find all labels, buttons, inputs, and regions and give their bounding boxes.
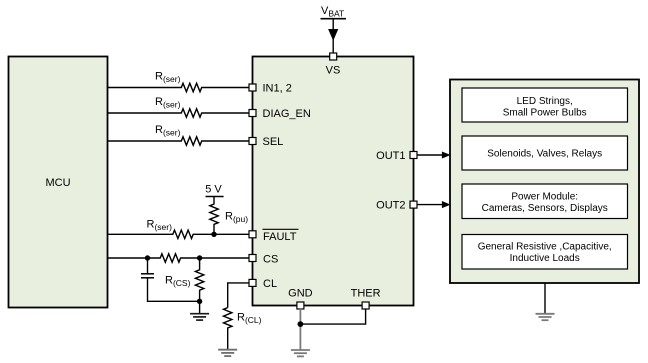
load box: LED strings: [462, 88, 628, 122]
resistor R(pu): [210, 197, 248, 235]
pin FAULT: [249, 229, 299, 243]
svg-text:R(CL): R(CL): [237, 312, 262, 326]
ground at GND pin: [291, 350, 310, 356]
ground at loads box: [536, 314, 555, 320]
pin IN1,2: [249, 83, 292, 95]
svg-text:DIAG_EN: DIAG_EN: [263, 108, 311, 120]
power switch IC block U1: [253, 57, 414, 306]
node GND junction: [298, 321, 304, 327]
wire loads box to ground: [544, 283, 546, 313]
svg-text:R(pu): R(pu): [225, 211, 248, 225]
svg-text:Cameras, Sensors, Displays: Cameras, Sensors, Displays: [482, 203, 608, 214]
wire THER to GND node: [300, 309, 365, 324]
svg-text:CL: CL: [263, 278, 277, 290]
loads group box: [450, 80, 639, 284]
svg-text:MCU: MCU: [45, 177, 70, 189]
pin CS: [249, 253, 278, 265]
pin THER: [351, 288, 381, 310]
wire CL to R(CL): [228, 283, 249, 308]
svg-text:Solenoids, Valves, Relays: Solenoids, Valves, Relays: [487, 149, 602, 160]
supply V_BAT: [321, 5, 347, 53]
svg-text:R(ser): R(ser): [155, 70, 181, 84]
pin GND: [288, 288, 313, 310]
node R(CS) bottom junction: [197, 299, 202, 314]
wire MCU to FAULT with resistor R(ser): [108, 219, 249, 239]
load box: power module: [462, 184, 628, 219]
resistor R(CL): [224, 308, 262, 350]
pin SEL: [249, 136, 283, 148]
wire OUT1 arrow to loads: [417, 152, 450, 158]
svg-text:LED Strings,: LED Strings,: [517, 96, 573, 107]
svg-text:Small Power Bulbs: Small Power Bulbs: [503, 108, 587, 119]
pin OUT2: [376, 200, 417, 212]
svg-text:OUT1: OUT1: [376, 150, 405, 162]
svg-text:FAULT: FAULT: [263, 231, 297, 243]
wire MCU to DIAG_EN with resistor R(ser): [108, 96, 249, 117]
wire MCU to CS with resistor: [108, 254, 249, 262]
pin OUT1: [376, 150, 417, 162]
ground at R(CS): [190, 314, 209, 320]
svg-text:CS: CS: [263, 253, 278, 265]
svg-text:GND: GND: [288, 288, 313, 300]
pin VS: [326, 53, 341, 77]
capacitor: [141, 258, 200, 301]
MCU block: [9, 57, 108, 308]
pin CL: [249, 278, 277, 290]
svg-text:IN1, 2: IN1, 2: [263, 83, 292, 95]
load box: general loads: [462, 235, 628, 270]
svg-text:OUT2: OUT2: [376, 200, 405, 212]
wire MCU to IN1,2 with resistor R(ser): [108, 70, 249, 91]
node junction R(pu)/FAULT: [211, 232, 216, 237]
svg-text:R(CS): R(CS): [165, 274, 191, 288]
svg-text:Inductive Loads: Inductive Loads: [510, 253, 580, 264]
svg-text:THER: THER: [351, 288, 381, 300]
node capacitor tap: [145, 255, 150, 260]
wire MCU to SEL with resistor R(ser): [108, 124, 249, 145]
wire OUT2 arrow to loads: [417, 202, 450, 208]
svg-text:5 V: 5 V: [205, 184, 222, 196]
ground at R(CL): [218, 350, 237, 356]
svg-text:R(ser): R(ser): [155, 124, 181, 138]
node R(CS) tap: [197, 255, 202, 260]
svg-text:General Resistive ,Capacitive,: General Resistive ,Capacitive,: [478, 242, 612, 253]
svg-text:Power Module:: Power Module:: [511, 192, 578, 203]
load box: solenoids: [462, 136, 628, 170]
svg-text:R(ser): R(ser): [155, 96, 181, 110]
pin DIAG_EN: [249, 108, 311, 120]
svg-text:SEL: SEL: [263, 136, 284, 148]
svg-text:VBAT: VBAT: [321, 5, 344, 19]
supply 5 V: [205, 184, 223, 197]
wire GND to ground (gray): [299, 309, 301, 350]
svg-text:VS: VS: [326, 65, 341, 77]
svg-text:R(ser): R(ser): [147, 219, 173, 233]
resistor R(CS): [165, 258, 204, 301]
